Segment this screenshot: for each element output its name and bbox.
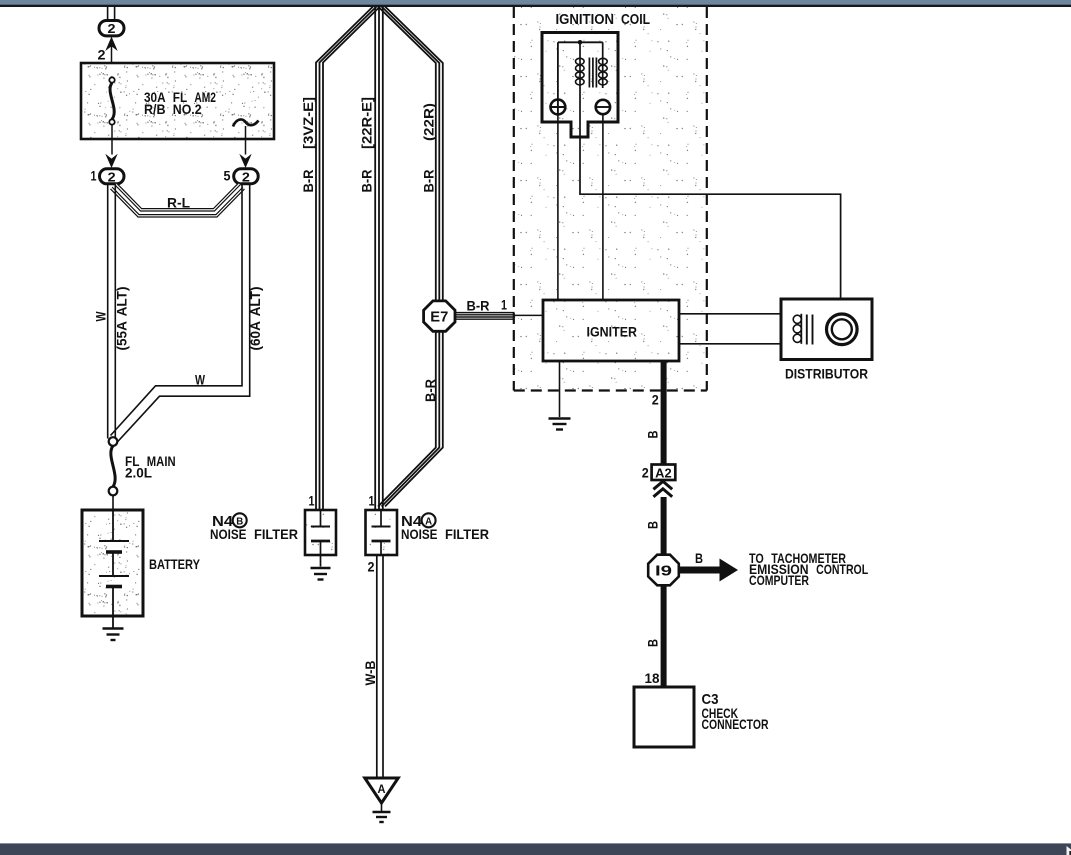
svg-text:FILTER: FILTER xyxy=(445,526,489,542)
svg-text:IGNITION: IGNITION xyxy=(556,12,615,28)
svg-text:NOISE: NOISE xyxy=(210,526,247,542)
svg-text:5: 5 xyxy=(224,169,231,184)
svg-text:B: B xyxy=(695,551,703,566)
svg-text:1: 1 xyxy=(369,494,375,509)
svg-text:B-R: B-R xyxy=(421,170,437,193)
svg-text:B: B xyxy=(646,521,661,529)
svg-text:DISTRIBUTOR: DISTRIBUTOR xyxy=(785,366,868,382)
svg-text:BATTERY: BATTERY xyxy=(149,556,201,572)
svg-text:COIL: COIL xyxy=(621,12,650,28)
svg-text:2: 2 xyxy=(98,48,106,63)
svg-text:W: W xyxy=(195,372,206,388)
svg-text:R-L: R-L xyxy=(167,195,190,211)
svg-text:NO.2: NO.2 xyxy=(173,101,202,117)
svg-text:NOISE: NOISE xyxy=(401,526,438,542)
svg-text:2: 2 xyxy=(108,169,116,184)
svg-text:[22R-E]: [22R-E] xyxy=(359,97,375,149)
svg-text:CONNECTOR: CONNECTOR xyxy=(702,716,769,732)
svg-text:(55A ALT): (55A ALT) xyxy=(114,287,130,351)
svg-text:COMPUTER: COMPUTER xyxy=(749,572,809,588)
svg-text:(60A ALT): (60A ALT) xyxy=(247,287,263,351)
svg-text:A: A xyxy=(378,784,386,796)
svg-text:B-R: B-R xyxy=(359,170,375,193)
svg-text:B-R: B-R xyxy=(422,379,438,402)
svg-text:2: 2 xyxy=(368,560,375,575)
svg-text:IGNITER: IGNITER xyxy=(587,324,638,340)
svg-text:B-R: B-R xyxy=(300,170,316,193)
svg-text:2: 2 xyxy=(242,169,250,184)
svg-text:2: 2 xyxy=(642,466,649,481)
svg-text:1: 1 xyxy=(91,169,97,184)
svg-text:1: 1 xyxy=(309,494,315,509)
svg-text:1: 1 xyxy=(501,298,507,313)
svg-text:2.0L: 2.0L xyxy=(125,465,152,481)
svg-text:2: 2 xyxy=(652,393,659,408)
svg-text:FILTER: FILTER xyxy=(254,526,298,542)
svg-text:B: B xyxy=(646,430,661,438)
svg-text:R/B: R/B xyxy=(144,101,166,117)
svg-text:B: B xyxy=(646,639,661,647)
svg-text:W-B: W-B xyxy=(362,661,378,686)
svg-text:W: W xyxy=(92,311,108,322)
svg-text:18: 18 xyxy=(645,671,660,686)
svg-text:CONTROL: CONTROL xyxy=(816,561,868,577)
svg-text:(22R): (22R) xyxy=(421,103,437,141)
svg-text:2: 2 xyxy=(108,21,116,36)
svg-text:B-R: B-R xyxy=(467,298,490,314)
svg-text:I9: I9 xyxy=(655,562,672,579)
svg-text:E7: E7 xyxy=(430,308,448,325)
svg-text:A2: A2 xyxy=(655,466,672,480)
svg-text:[3VZ-E]: [3VZ-E] xyxy=(300,97,316,149)
